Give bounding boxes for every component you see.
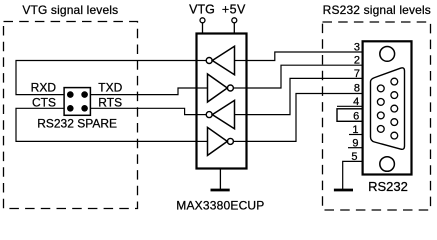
inverter 4 (driver, points right)	[197, 127, 247, 155]
mounting hole top	[380, 47, 395, 62]
+5V supply terminal	[222, 3, 246, 34]
wire TXD: header to inverter2 input	[90, 88, 196, 95]
ground (chip)	[211, 169, 230, 191]
pin hole 9	[377, 125, 384, 132]
svg-text:4: 4	[353, 96, 359, 108]
svg-text:RTS: RTS	[98, 96, 122, 110]
svg-text:9: 9	[352, 137, 358, 149]
svg-text:RS232 SPARE: RS232 SPARE	[37, 116, 117, 130]
VTG signal levels dashed box	[4, 22, 138, 209]
D-sub shell	[371, 68, 405, 149]
header J1 RS232 SPARE	[64, 88, 90, 116]
svg-text:CTS: CTS	[32, 96, 56, 110]
svg-text:RS232: RS232	[368, 179, 408, 194]
svg-text:VTG: VTG	[189, 3, 215, 17]
svg-text:TXD: TXD	[98, 81, 122, 95]
inverter 1 (receiver, points left)	[197, 46, 247, 74]
VTG supply terminal	[189, 3, 215, 34]
wire DB9 pin 5 to ground	[343, 161, 363, 189]
svg-text:1: 1	[352, 124, 358, 136]
pin hole 2	[391, 92, 398, 99]
inverter 3 (receiver, points left)	[197, 100, 247, 128]
pin hole 4	[391, 119, 398, 126]
svg-text:+5V: +5V	[222, 3, 246, 17]
svg-text:2: 2	[354, 54, 360, 66]
node box around pin 6	[337, 109, 363, 122]
inverter 2 (driver, points right)	[197, 74, 247, 102]
pin hole 8	[377, 112, 384, 119]
pin hole 6	[377, 85, 384, 92]
RS232 signal levels dashed box	[323, 22, 431, 210]
wire RTS: header to inverter3 output	[90, 108, 196, 114]
svg-text:7: 7	[354, 68, 360, 80]
wire inverter2 to DB9 pin 2	[247, 65, 363, 88]
svg-text:RXD: RXD	[31, 81, 57, 95]
svg-text:5: 5	[351, 151, 357, 163]
wire DB9 pin 9 stub	[348, 147, 363, 149]
svg-text:8: 8	[354, 83, 360, 95]
pin hole 1	[391, 78, 398, 85]
wire inverter3 to DB9 pin 7	[247, 78, 363, 114]
svg-text:RS232 signal levels: RS232 signal levels	[323, 3, 431, 17]
wire DB9 pin 1 stub	[349, 134, 363, 136]
op-amp U1 body MAX3380ECUP	[197, 34, 247, 169]
pin hole 7	[377, 99, 384, 106]
pin hole 5	[391, 132, 398, 139]
connector J2 DB9 outer body	[363, 41, 412, 174]
svg-text:MAX3380ECUP: MAX3380ECUP	[176, 199, 264, 213]
ground (pin 5)	[334, 189, 353, 192]
wire DB9 pin 4 stub	[337, 105, 363, 107]
pin hole 3	[391, 105, 398, 112]
svg-text:3: 3	[354, 42, 360, 54]
svg-text:6: 6	[353, 111, 359, 123]
wire inverter4 to DB9 pin 8	[247, 94, 363, 142]
svg-text:VTG signal levels: VTG signal levels	[22, 3, 118, 17]
wire CTS: header to inverter4 input	[16, 108, 197, 141]
mounting hole bottom	[380, 157, 395, 172]
wire RXD: inverter1 output to header	[16, 61, 197, 95]
wire inverter1 to DB9 pin 3	[247, 52, 363, 61]
